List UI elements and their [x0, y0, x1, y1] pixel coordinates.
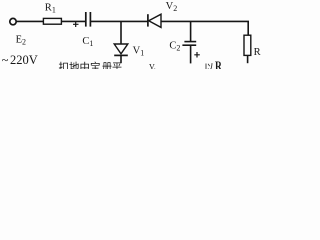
diode V1 triangle	[114, 44, 128, 54]
wire V2 to corner and down to R	[161, 21, 248, 35]
capacitor C1 left plate	[85, 12, 87, 27]
resistor R bottom lead	[247, 55, 249, 63]
diode V1 cathode bar	[114, 54, 128, 56]
svg-text:册平: 册平	[102, 63, 122, 69]
resistor R box	[244, 35, 251, 55]
capacitor C2 bottom plate	[182, 44, 196, 46]
plus sign of C1	[73, 22, 79, 27]
wire terminal to R1	[17, 20, 44, 22]
svg-text:220V: 220V	[10, 53, 38, 67]
diode V2 triangle	[149, 14, 161, 27]
terminal E2 input	[10, 18, 16, 24]
diode V1 anode wire	[120, 21, 122, 44]
wire C1 to V2	[91, 20, 148, 22]
capacitor C1 right plate	[89, 12, 91, 27]
diode V2 cathode bar	[147, 14, 149, 26]
wire R1 to C1	[61, 20, 85, 22]
svg-text:R: R	[215, 59, 223, 69]
svg-text:以: 以	[204, 64, 214, 70]
svg-text:V.: V.	[149, 63, 156, 70]
diode V1 cathode lead	[120, 55, 122, 63]
capacitor C2 top plate	[184, 41, 196, 43]
svg-text:~: ~	[2, 53, 9, 67]
svg-text:R: R	[254, 47, 261, 58]
plus sign of C2	[194, 52, 200, 58]
resistor R1	[43, 18, 61, 24]
svg-text:扣地中宝: 扣地中宝	[59, 61, 101, 70]
capacitor C2 top lead	[190, 21, 192, 41]
capacitor C2 bottom lead	[190, 45, 192, 63]
